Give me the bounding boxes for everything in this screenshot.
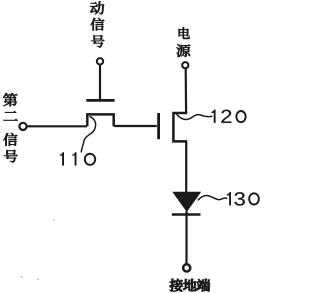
reference label 130 [227, 192, 259, 206]
leader squiggle to 120 [177, 114, 213, 119]
leader squiggle to 130 [198, 196, 228, 201]
transistor Q120 channel (drain-source step) [173, 113, 187, 141]
wire: second signal terminal to Q110 source [27, 125, 87, 127]
wire: Q110 drain to gate of Q120 [114, 125, 157, 127]
transistor Q110 gate bar [86, 99, 114, 102]
terminal: second signal node [19, 123, 26, 130]
wire: drive terminal to gate of 110 [99, 65, 101, 99]
transistor Q110 channel (source-drain step) [87, 114, 113, 126]
terminal: drive signal node [97, 58, 103, 64]
wire: diode cathode to ground terminal [185, 211, 187, 264]
wire: power terminal to Q120 drain [185, 69, 188, 113]
reference label 110 [60, 152, 95, 165]
label 接地端 (ground terminal) [170, 279, 210, 292]
label 第二信号 (second signal) [3, 93, 18, 162]
terminal: power supply node [182, 62, 188, 68]
terminal: ground node [183, 264, 190, 271]
label 电源 (power supply) [176, 27, 190, 57]
wire: Q120 source to diode anode [185, 141, 187, 193]
leader squiggle to 110 [81, 116, 95, 152]
reference label 120 [211, 110, 245, 123]
label 动信号 (drive signal) [90, 1, 104, 47]
diode D130 cathode bar [172, 213, 201, 216]
scan specks (faint) [21, 219, 55, 280]
transistor Q120 gate bar [157, 113, 160, 139]
diode D130 anode triangle [173, 192, 200, 211]
